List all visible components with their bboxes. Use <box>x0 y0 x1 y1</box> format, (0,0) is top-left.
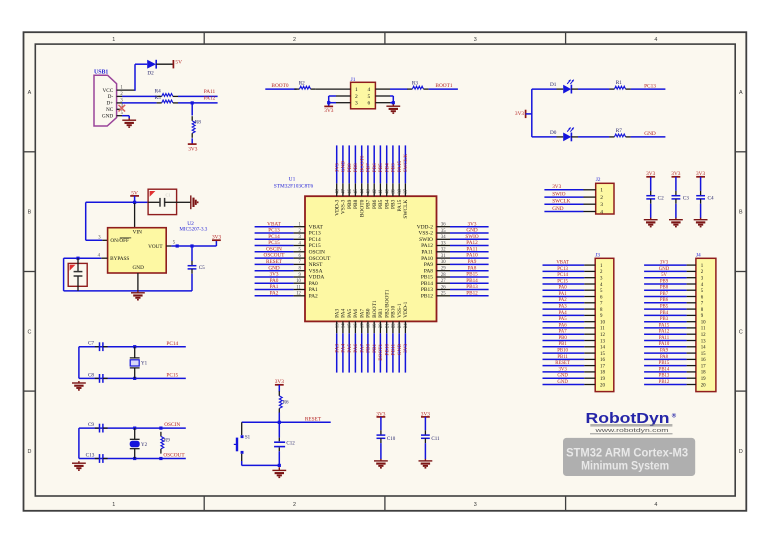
svg-text:43: 43 <box>367 188 372 193</box>
svg-text:VSSA: VSSA <box>309 268 323 274</box>
svg-text:46: 46 <box>348 188 353 193</box>
svg-text:47: 47 <box>342 188 347 193</box>
svg-text:Y1: Y1 <box>141 362 148 367</box>
svg-text:PB5: PB5 <box>378 199 384 209</box>
svg-text:32: 32 <box>441 248 446 253</box>
svg-text:BOOT1: BOOT1 <box>378 344 384 361</box>
svg-text:GND: GND <box>644 131 656 137</box>
svg-text:C2: C2 <box>658 196 664 202</box>
svg-text:20: 20 <box>701 383 706 388</box>
svg-text:OSCOUT: OSCOUT <box>309 256 331 262</box>
svg-text:R2: R2 <box>299 81 305 87</box>
svg-text:PA6: PA6 <box>353 344 359 353</box>
svg-text:PA7: PA7 <box>359 344 365 353</box>
svg-text:PB14: PB14 <box>466 278 478 284</box>
svg-text:PB15: PB15 <box>421 275 433 281</box>
svg-text:4: 4 <box>600 209 603 215</box>
svg-text:PC13: PC13 <box>309 231 321 237</box>
svg-text:PB4: PB4 <box>384 163 390 172</box>
svg-text:24: 24 <box>404 323 409 328</box>
svg-text:C12: C12 <box>286 442 295 447</box>
svg-text:ON/OFF: ON/OFF <box>110 238 129 244</box>
svg-text:10: 10 <box>701 321 706 326</box>
svg-text:3: 3 <box>600 202 603 208</box>
svg-text:D: D <box>739 449 743 455</box>
svg-text:VSS-1: VSS-1 <box>397 303 403 318</box>
svg-text:GND: GND <box>552 206 564 212</box>
svg-text:C4: C4 <box>708 196 714 202</box>
svg-text:SWCLK: SWCLK <box>403 154 409 172</box>
svg-text:NC: NC <box>106 107 114 113</box>
svg-text:17: 17 <box>701 364 706 369</box>
svg-text:B: B <box>28 210 32 216</box>
svg-text:PB11: PB11 <box>557 355 568 360</box>
svg-text:RESET: RESET <box>555 361 570 366</box>
svg-text:16: 16 <box>600 358 605 363</box>
svg-text:BOOT0: BOOT0 <box>359 155 365 172</box>
svg-text:16: 16 <box>354 323 359 328</box>
svg-text:SWCLK: SWCLK <box>552 199 570 205</box>
svg-text:PA12: PA12 <box>421 243 433 249</box>
svg-text:17: 17 <box>600 364 605 369</box>
svg-text:48: 48 <box>335 188 340 193</box>
svg-text:5V: 5V <box>175 59 182 65</box>
svg-text:Y2: Y2 <box>141 443 148 448</box>
svg-text:SWIO: SWIO <box>419 237 433 243</box>
svg-text:SWCLK: SWCLK <box>403 200 409 219</box>
svg-text:PB3: PB3 <box>391 199 397 209</box>
svg-text:PB6: PB6 <box>372 199 378 209</box>
svg-text:PA11: PA11 <box>466 246 478 252</box>
svg-text:15: 15 <box>348 323 353 328</box>
svg-text:4: 4 <box>654 502 657 508</box>
svg-text:45: 45 <box>354 188 359 193</box>
svg-text:PA0: PA0 <box>309 281 318 287</box>
svg-text:PB6: PB6 <box>372 163 378 172</box>
svg-text:D: D <box>27 449 31 455</box>
svg-text:GND: GND <box>133 265 145 271</box>
svg-text:BOOT1: BOOT1 <box>435 83 453 89</box>
svg-text:PB9: PB9 <box>347 163 353 172</box>
svg-text:PC14: PC14 <box>309 237 321 243</box>
svg-text:19: 19 <box>373 323 378 328</box>
svg-text:PB7: PB7 <box>660 292 669 297</box>
svg-text:12: 12 <box>296 292 301 297</box>
svg-text:18: 18 <box>701 371 706 376</box>
svg-text:PC15: PC15 <box>268 240 280 246</box>
svg-text:3V3: 3V3 <box>188 147 198 153</box>
svg-text:28: 28 <box>441 273 446 278</box>
svg-text:42: 42 <box>373 188 378 193</box>
svg-text:3V3: 3V3 <box>515 111 525 117</box>
svg-text:PA6: PA6 <box>353 308 359 317</box>
svg-text:VBAT: VBAT <box>309 224 324 230</box>
svg-text:4: 4 <box>654 37 657 43</box>
svg-text:PB14: PB14 <box>659 367 670 372</box>
svg-text:3V3: 3V3 <box>403 344 409 353</box>
svg-text:PC15: PC15 <box>309 243 321 249</box>
svg-text:OSCIN: OSCIN <box>164 422 180 428</box>
svg-text:PA5: PA5 <box>347 344 353 353</box>
svg-text:PA15: PA15 <box>659 323 670 328</box>
svg-text:PB14: PB14 <box>421 281 433 287</box>
svg-text:39: 39 <box>392 188 397 193</box>
svg-text:PB4: PB4 <box>660 311 669 316</box>
svg-text:C7: C7 <box>88 341 94 347</box>
svg-text:PB13: PB13 <box>659 374 670 379</box>
svg-text:41: 41 <box>379 188 384 193</box>
svg-text:PA12: PA12 <box>466 240 478 246</box>
svg-text:3V3: 3V3 <box>552 184 561 190</box>
svg-text:PB13: PB13 <box>466 284 478 290</box>
svg-text:PA0: PA0 <box>270 278 279 284</box>
svg-text:SWIO: SWIO <box>552 192 566 198</box>
svg-text:GND: GND <box>102 113 114 119</box>
svg-text:PB6: PB6 <box>660 298 669 303</box>
svg-text:PA4: PA4 <box>341 308 347 317</box>
svg-text:13: 13 <box>600 339 605 344</box>
svg-text:17: 17 <box>360 323 365 328</box>
svg-text:PB12: PB12 <box>659 380 670 385</box>
svg-text:GND: GND <box>557 374 568 379</box>
svg-text:3: 3 <box>355 101 358 107</box>
svg-text:PB12: PB12 <box>466 290 478 296</box>
svg-text:PA3: PA3 <box>334 344 340 353</box>
svg-text:35: 35 <box>441 229 446 234</box>
svg-text:3V3: 3V3 <box>324 108 334 114</box>
svg-text:1: 1 <box>112 37 115 43</box>
svg-text:B: B <box>739 210 743 216</box>
svg-text:PA7: PA7 <box>559 330 568 335</box>
svg-text:BYPASS: BYPASS <box>110 256 129 262</box>
svg-text:37: 37 <box>404 188 409 193</box>
svg-text:2: 2 <box>355 94 358 100</box>
svg-text:STM32 ARM Cortex-M3: STM32 ARM Cortex-M3 <box>566 445 688 459</box>
svg-text:30: 30 <box>441 260 446 265</box>
svg-text:BOOT0: BOOT0 <box>359 199 365 217</box>
svg-text:C11: C11 <box>431 437 440 442</box>
svg-text:VSS-2: VSS-2 <box>418 231 433 237</box>
svg-text:C: C <box>739 329 743 335</box>
svg-text:21: 21 <box>385 323 390 328</box>
svg-text:29: 29 <box>441 267 446 272</box>
svg-text:19: 19 <box>600 377 605 382</box>
svg-text:1: 1 <box>112 502 115 508</box>
svg-text:PC15: PC15 <box>166 373 178 379</box>
svg-text:VDD-1: VDD-1 <box>403 301 409 318</box>
svg-text:PA9: PA9 <box>424 262 433 268</box>
svg-text:2: 2 <box>293 502 296 508</box>
svg-text:10: 10 <box>296 279 301 284</box>
svg-text:PA4: PA4 <box>559 311 568 316</box>
svg-text:R9: R9 <box>164 439 170 444</box>
svg-text:GND: GND <box>268 265 280 271</box>
svg-text:22: 22 <box>392 323 397 328</box>
svg-text:OSCOUT: OSCOUT <box>264 253 286 259</box>
svg-text:PA3: PA3 <box>559 305 568 310</box>
svg-text:A: A <box>28 90 32 96</box>
svg-text:R4: R4 <box>155 89 161 95</box>
svg-text:PA7: PA7 <box>359 308 365 317</box>
svg-text:PC13: PC13 <box>644 83 656 89</box>
svg-text:14: 14 <box>342 323 347 328</box>
svg-text:12: 12 <box>701 333 706 338</box>
svg-text:VBAT: VBAT <box>556 261 569 266</box>
svg-text:PC14: PC14 <box>557 273 568 278</box>
svg-text:4: 4 <box>367 87 370 93</box>
svg-text:VDD-2: VDD-2 <box>417 224 434 230</box>
svg-text:PC15: PC15 <box>557 279 568 284</box>
svg-text:20: 20 <box>379 323 384 328</box>
svg-text:PB1: PB1 <box>558 342 567 347</box>
svg-text:15: 15 <box>701 352 706 357</box>
svg-text:14: 14 <box>701 346 706 351</box>
svg-text:3V3: 3V3 <box>558 367 567 372</box>
svg-text:PB2/BOOT1: PB2/BOOT1 <box>384 289 390 318</box>
svg-text:C3: C3 <box>683 196 689 202</box>
svg-text:C8: C8 <box>88 372 94 378</box>
svg-text:PB10: PB10 <box>391 306 397 318</box>
svg-text:PB5: PB5 <box>660 305 669 310</box>
svg-text:PB9: PB9 <box>347 199 353 209</box>
svg-text:RESET: RESET <box>266 259 283 265</box>
svg-text:PB8: PB8 <box>660 286 669 291</box>
svg-text:31: 31 <box>441 254 446 259</box>
svg-text:PA15: PA15 <box>397 199 403 211</box>
svg-text:®: ® <box>672 413 677 420</box>
svg-text:D0: D0 <box>550 130 557 136</box>
svg-text:PB3: PB3 <box>660 317 669 322</box>
svg-text:11: 11 <box>296 285 301 290</box>
svg-text:12: 12 <box>600 333 605 338</box>
svg-text:PA1: PA1 <box>309 287 318 293</box>
svg-text:R3: R3 <box>412 81 418 87</box>
svg-text:15: 15 <box>600 352 605 357</box>
svg-text:C10: C10 <box>387 437 396 442</box>
svg-text:PA12: PA12 <box>204 95 216 101</box>
svg-text:VBAT: VBAT <box>267 221 281 227</box>
svg-text:D1: D1 <box>550 82 557 88</box>
svg-text:PA2: PA2 <box>270 290 279 296</box>
svg-text:PA9: PA9 <box>660 349 669 354</box>
svg-text:MIC5207-3.3: MIC5207-3.3 <box>179 226 207 232</box>
svg-text:2: 2 <box>600 195 603 201</box>
svg-text:GND: GND <box>341 161 347 173</box>
svg-text:R5: R5 <box>155 95 161 101</box>
svg-text:PB13: PB13 <box>421 287 433 293</box>
svg-text:VDD-3: VDD-3 <box>334 199 340 216</box>
svg-text:BOOT0: BOOT0 <box>271 83 289 89</box>
svg-text:25: 25 <box>441 292 446 297</box>
svg-text:PB5: PB5 <box>378 163 384 172</box>
svg-text:D+: D+ <box>106 101 113 107</box>
svg-text:5V: 5V <box>661 273 667 278</box>
svg-text:3: 3 <box>474 37 477 43</box>
svg-text:PB8: PB8 <box>353 199 359 209</box>
svg-text:PA11: PA11 <box>204 89 216 95</box>
svg-text:GND: GND <box>466 228 478 234</box>
svg-text:PB0: PB0 <box>558 336 567 341</box>
svg-text:1: 1 <box>600 188 603 194</box>
svg-text:PB11: PB11 <box>391 344 397 356</box>
svg-text:PB3: PB3 <box>391 163 397 172</box>
svg-text:D2: D2 <box>147 71 154 77</box>
svg-text:13: 13 <box>335 323 340 328</box>
svg-text:R8: R8 <box>195 120 201 126</box>
svg-text:GND: GND <box>397 344 403 356</box>
svg-text:PB0: PB0 <box>366 344 372 353</box>
svg-text:PA5: PA5 <box>559 317 568 322</box>
svg-text:14: 14 <box>600 346 605 351</box>
svg-text:3V3: 3V3 <box>212 234 222 240</box>
svg-text:VOUT: VOUT <box>148 244 163 250</box>
svg-text:20: 20 <box>600 383 605 388</box>
svg-text:OSCIN: OSCIN <box>309 250 325 256</box>
svg-text:BOOT1: BOOT1 <box>372 300 378 318</box>
svg-text:26: 26 <box>441 285 446 290</box>
svg-text:PA12: PA12 <box>659 330 670 335</box>
svg-text:www.robotdyn.com: www.robotdyn.com <box>594 428 669 434</box>
svg-text:16: 16 <box>701 358 706 363</box>
svg-text:1: 1 <box>355 87 358 93</box>
svg-text:PC14: PC14 <box>166 341 178 347</box>
svg-text:OSCIN: OSCIN <box>266 246 282 252</box>
svg-text:PC13: PC13 <box>268 228 280 234</box>
svg-text:J2: J2 <box>596 177 601 183</box>
svg-text:23: 23 <box>398 323 403 328</box>
svg-text:PB9: PB9 <box>660 279 669 284</box>
svg-text:RESET: RESET <box>305 417 322 423</box>
svg-text:PA6: PA6 <box>559 323 568 328</box>
svg-text:GND: GND <box>659 267 670 272</box>
svg-text:U1: U1 <box>289 177 296 183</box>
svg-text:OSCOUT: OSCOUT <box>163 453 185 459</box>
svg-text:36: 36 <box>441 223 446 228</box>
svg-text:PB0: PB0 <box>366 308 372 318</box>
svg-text:C9: C9 <box>88 422 94 428</box>
svg-text:3V3: 3V3 <box>270 272 279 278</box>
svg-text:18: 18 <box>367 323 372 328</box>
svg-text:Minimum System: Minimum System <box>581 458 669 472</box>
svg-text:11: 11 <box>600 327 605 332</box>
svg-text:3V3: 3V3 <box>660 261 669 266</box>
svg-text:18: 18 <box>600 371 605 376</box>
svg-text:PB8: PB8 <box>353 163 359 172</box>
svg-text:PB12: PB12 <box>421 294 433 300</box>
svg-text:44: 44 <box>360 188 365 193</box>
svg-text:PB10: PB10 <box>557 349 568 354</box>
svg-text:SWIO: SWIO <box>465 234 479 240</box>
svg-text:3: 3 <box>474 502 477 508</box>
svg-text:PA5: PA5 <box>347 308 353 317</box>
svg-text:PA9: PA9 <box>468 259 477 265</box>
svg-text:R1: R1 <box>616 80 622 86</box>
svg-text:5: 5 <box>367 94 370 100</box>
svg-text:PA11: PA11 <box>421 250 433 256</box>
svg-text:PA1: PA1 <box>270 284 279 290</box>
svg-text:3V3: 3V3 <box>468 221 477 227</box>
svg-text:PB1: PB1 <box>378 308 384 318</box>
svg-text:33: 33 <box>441 241 446 246</box>
svg-text:STM32F103C8T6: STM32F103C8T6 <box>274 184 314 190</box>
svg-text:PA4: PA4 <box>341 344 347 353</box>
svg-text:PA8: PA8 <box>424 268 433 274</box>
svg-text:PA10: PA10 <box>659 342 670 347</box>
svg-text:PA10: PA10 <box>421 256 433 262</box>
svg-text:PA1: PA1 <box>559 292 568 297</box>
svg-text:34: 34 <box>441 235 446 240</box>
svg-text:C5: C5 <box>199 265 205 271</box>
svg-text:PB7: PB7 <box>366 163 372 172</box>
svg-text:R7: R7 <box>616 128 622 134</box>
svg-text:19: 19 <box>701 377 706 382</box>
svg-text:6: 6 <box>367 101 370 107</box>
svg-text:PC13: PC13 <box>557 267 568 272</box>
svg-text:VSS-3: VSS-3 <box>341 199 347 214</box>
svg-text:PA10: PA10 <box>466 253 478 259</box>
svg-text:PB15: PB15 <box>466 272 478 278</box>
svg-text:VIN: VIN <box>133 230 143 236</box>
svg-text:C1: C1 <box>165 193 170 198</box>
svg-text:PA8: PA8 <box>468 265 477 271</box>
svg-text:NRST: NRST <box>309 262 324 268</box>
svg-text:PA2: PA2 <box>559 298 568 303</box>
svg-text:2: 2 <box>293 37 296 43</box>
svg-text:27: 27 <box>441 279 446 284</box>
svg-text:11: 11 <box>701 327 706 332</box>
svg-text:C13: C13 <box>86 453 95 459</box>
svg-text:S1: S1 <box>245 435 251 440</box>
svg-text:38: 38 <box>398 188 403 193</box>
svg-text:PB1: PB1 <box>372 344 378 353</box>
svg-text:3V3: 3V3 <box>334 163 340 172</box>
svg-text:C: C <box>27 329 31 335</box>
svg-text:PB10: PB10 <box>384 344 390 356</box>
svg-text:GND: GND <box>557 380 568 385</box>
svg-text:A: A <box>739 90 743 96</box>
svg-text:PA11: PA11 <box>659 336 670 341</box>
svg-text:D-: D- <box>108 94 114 100</box>
svg-text:PA2: PA2 <box>309 294 318 300</box>
svg-text:VDDA: VDDA <box>309 275 325 281</box>
svg-text:13: 13 <box>701 339 706 344</box>
svg-text:PA0: PA0 <box>559 286 568 291</box>
svg-text:PA8: PA8 <box>660 355 669 360</box>
svg-text:PB4: PB4 <box>384 199 390 209</box>
svg-text:R6: R6 <box>283 401 289 406</box>
svg-text:10: 10 <box>600 321 605 326</box>
svg-text:PA15: PA15 <box>397 160 403 172</box>
svg-text:PA3: PA3 <box>334 308 340 317</box>
svg-text:PB7: PB7 <box>366 199 372 209</box>
svg-text:VCC: VCC <box>102 88 113 94</box>
svg-text:PB15: PB15 <box>659 361 670 366</box>
svg-text:PC14: PC14 <box>268 234 280 240</box>
svg-text:40: 40 <box>385 188 390 193</box>
